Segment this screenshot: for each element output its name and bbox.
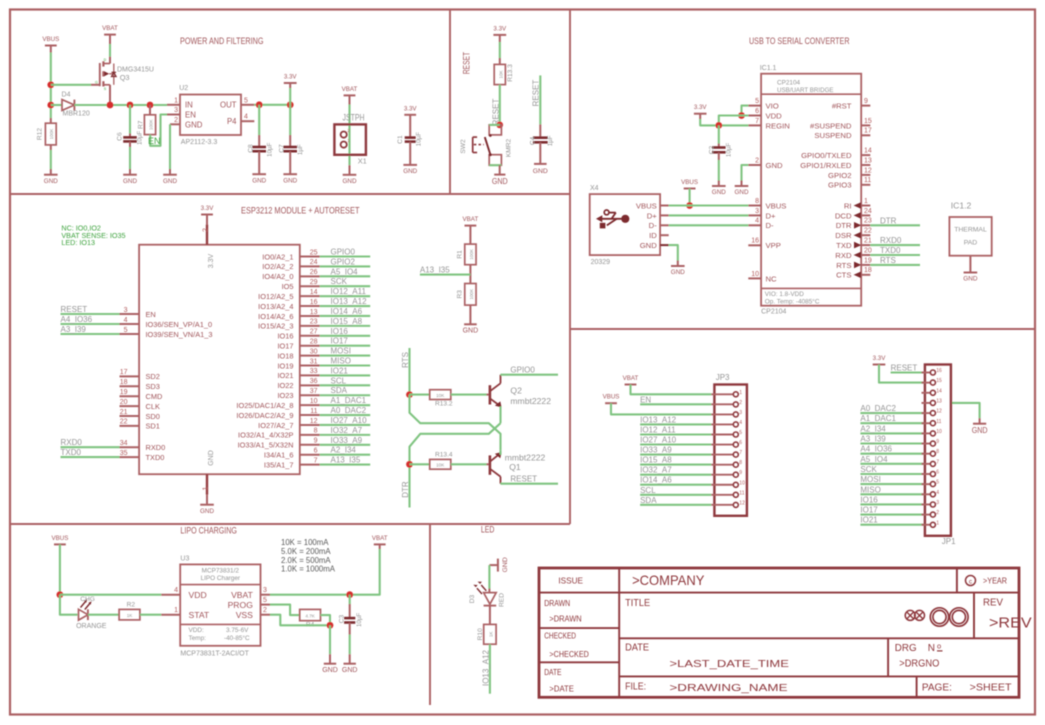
svg-text:RXD0: RXD0 <box>146 443 166 452</box>
svg-text:CMD: CMD <box>146 392 163 401</box>
supply VBAT lipo right <box>374 543 386 545</box>
svg-text:SD1: SD1 <box>146 422 160 431</box>
svg-text:VBUS: VBUS <box>681 179 698 186</box>
svg-text:GND: GND <box>492 176 508 186</box>
LED D3 red <box>484 593 497 605</box>
svg-text:29: 29 <box>310 279 318 286</box>
wire VBAT to Q3 drain <box>109 35 111 44</box>
pin 5 OUT stub <box>241 104 254 106</box>
net stub DTR (vertical) <box>408 464 410 507</box>
ground below C8 <box>252 173 266 175</box>
wire U3 VBAT to VBAT supply <box>270 549 380 595</box>
net stub RESET to C4 <box>539 75 541 124</box>
svg-text:19: 19 <box>120 389 128 396</box>
svg-text:REV: REV <box>983 598 1003 609</box>
svg-text:SCK: SCK <box>331 277 348 286</box>
esp pin 26 IO4/A2_0 / net A5_IO4 <box>300 275 320 277</box>
svg-text:A5_IO4: A5_IO4 <box>331 267 359 276</box>
svg-text:CHG: CHG <box>80 596 95 603</box>
wire R3 to gnd <box>469 305 471 324</box>
svg-text:Op. Temp: -4085°C: Op. Temp: -4085°C <box>765 297 820 305</box>
svg-text:100K: 100K <box>149 119 154 131</box>
svg-text:I34/A1_6: I34/A1_6 <box>264 451 294 460</box>
svg-text:36: 36 <box>310 378 318 385</box>
CP2104 pin 11 GPIO3 <box>861 184 870 186</box>
svg-text:11: 11 <box>936 419 941 425</box>
esp pin 35 TXD0 / net TXD0 <box>61 456 120 458</box>
svg-text:EN: EN <box>148 136 161 146</box>
svg-text:10K: 10K <box>436 393 445 398</box>
esp pin 20 CLK <box>120 405 140 407</box>
svg-text:A13_I35: A13_I35 <box>420 265 450 274</box>
wire VBUS to U3 VDD <box>59 544 61 594</box>
svg-text:25: 25 <box>310 249 318 256</box>
esp pin 5 IO39/SEN_VN/A1_3 / net A3_I39 <box>61 333 120 335</box>
svg-text:23: 23 <box>864 218 872 225</box>
svg-text:>DRAWN: >DRAWN <box>549 614 581 624</box>
svg-text:14: 14 <box>936 388 942 394</box>
wire VBAT to JP3 pin1 <box>631 385 712 395</box>
net IO33_A9 wire to JP3 <box>640 454 711 456</box>
wire X1 pin1 to gnd <box>349 165 351 175</box>
svg-text:6: 6 <box>739 440 742 446</box>
CP2104 pin 20 RXD <box>861 254 870 256</box>
wire R13.3 to switch / net RESET <box>499 85 501 125</box>
svg-text:16: 16 <box>310 299 318 306</box>
svg-text:2: 2 <box>263 607 267 614</box>
svg-text:IO32/A1_4/X32P: IO32/A1_4/X32P <box>238 431 294 440</box>
svg-text:GND: GND <box>200 508 214 515</box>
svg-text:D4: D4 <box>62 92 71 99</box>
svg-text:D+: D+ <box>766 211 777 220</box>
svg-text:IN: IN <box>185 101 193 110</box>
svg-text:R12: R12 <box>37 128 44 140</box>
svg-text:1.0K = 1000mA: 1.0K = 1000mA <box>281 565 336 574</box>
svg-text:>COMPANY: >COMPANY <box>632 572 705 588</box>
resistor R7 100K <box>149 105 151 115</box>
svg-text:RESET: RESET <box>61 305 88 314</box>
capacitor C8 10uF <box>258 105 260 135</box>
esp pin 28 IO17 / net IO17 <box>300 345 320 347</box>
svg-text:>DRGNO: >DRGNO <box>899 657 939 669</box>
svg-text:RTS: RTS <box>836 261 851 270</box>
svg-text:R13.3: R13.3 <box>507 64 514 82</box>
wire C6 to gnd <box>129 147 131 169</box>
svg-text:RESET: RESET <box>510 475 537 484</box>
esp pin 30 IO18 / net MOSI <box>300 355 320 357</box>
wire JP1 pin13 to gnd <box>951 403 980 418</box>
svg-text:11: 11 <box>310 408 317 415</box>
svg-text:DCD: DCD <box>835 211 852 220</box>
svg-text:8: 8 <box>755 198 759 205</box>
esp pin 25 IO0/A2_1 / net GPIO0 <box>300 256 320 258</box>
svg-text:MCP73831/2: MCP73831/2 <box>202 568 240 575</box>
svg-text:7: 7 <box>314 457 318 464</box>
svg-text:ESP3212 MODULE + AUTORESET: ESP3212 MODULE + AUTORESET <box>241 206 360 216</box>
ground below C4 <box>534 163 547 165</box>
svg-text:IO36/SEN_VP/A1_0: IO36/SEN_VP/A1_0 <box>146 320 213 329</box>
svg-text:Q2: Q2 <box>510 385 522 395</box>
svg-text:RXD0: RXD0 <box>880 236 902 245</box>
JP3 pin 6 <box>711 444 733 446</box>
svg-text:1: 1 <box>864 198 868 205</box>
svg-text:3.3V: 3.3V <box>694 104 708 111</box>
svg-text:R1: R1 <box>457 250 464 259</box>
wire C3 to gnd <box>349 635 351 655</box>
svg-text:GND: GND <box>343 178 357 185</box>
svg-text:11: 11 <box>739 490 744 496</box>
svg-text:EN: EN <box>146 310 156 319</box>
transistor Q2 mmbt2222 npn <box>489 385 492 404</box>
svg-text:2: 2 <box>936 510 939 516</box>
svg-text:IC1.1: IC1.1 <box>760 65 777 72</box>
svg-text:THERMAL: THERMAL <box>954 227 987 234</box>
svg-text:IC1.2: IC1.2 <box>951 201 972 211</box>
wire gate of Q3 <box>51 84 91 86</box>
ground jp1 <box>973 423 986 425</box>
svg-text:mmbt2222: mmbt2222 <box>505 452 546 462</box>
junction REGIN / C2 <box>715 122 722 129</box>
svg-text:GND: GND <box>671 269 685 276</box>
svg-text:ID: ID <box>649 231 657 240</box>
svg-text:A2_I34: A2_I34 <box>860 424 886 433</box>
wire VBUS vertical to rail <box>50 46 52 53</box>
svg-text:>DATE: >DATE <box>549 684 574 694</box>
svg-text:VBAT: VBAT <box>372 535 388 542</box>
CP2104 pin 2 GND <box>748 164 761 166</box>
X4 pin D- <box>660 224 669 226</box>
JP3 pin 1 <box>711 393 733 395</box>
svg-text:GND: GND <box>123 178 137 185</box>
esp pin 37 IO23 / net SDA <box>300 394 320 396</box>
net SCL wire to JP3 <box>640 494 711 496</box>
svg-text:35: 35 <box>120 450 128 457</box>
CP2104 pin 18 CTS <box>861 274 870 276</box>
svg-text:IO14_A6: IO14_A6 <box>640 476 672 485</box>
svg-text:GND: GND <box>463 328 479 335</box>
supply 3.3V reset <box>493 34 506 36</box>
svg-text:mmbt2222: mmbt2222 <box>510 396 551 406</box>
section divider vertical power|reset <box>449 10 451 195</box>
svg-text:2: 2 <box>174 117 178 124</box>
svg-text:100K: 100K <box>469 248 474 260</box>
svg-text:GND: GND <box>972 425 988 435</box>
svg-text:VBAT: VBAT <box>623 375 639 382</box>
net SDA wire to JP3 <box>640 504 711 506</box>
svg-text:GND: GND <box>342 667 358 674</box>
wire net A13_I35 <box>469 265 471 284</box>
junction DTR / R13.4 <box>406 461 413 468</box>
svg-text:RTS: RTS <box>401 352 410 368</box>
wire VIO to VDD <box>742 106 749 116</box>
svg-text:3.3V: 3.3V <box>208 253 215 268</box>
svg-text:9: 9 <box>739 470 742 476</box>
pin 1 IN stub <box>167 104 180 106</box>
wire TXD0 net <box>870 254 920 256</box>
JP3 pin 7 <box>711 454 733 456</box>
svg-text:A1_DAC1: A1_DAC1 <box>331 396 367 405</box>
ground below SW2 <box>494 174 505 176</box>
svg-text:14: 14 <box>310 289 318 296</box>
pin 2 GND stub <box>170 123 180 125</box>
svg-text:X4: X4 <box>590 185 599 192</box>
resistor R13.4 10K <box>410 463 430 465</box>
JP1 pin 1 <box>922 524 931 526</box>
svg-text:CP2104: CP2104 <box>761 309 786 316</box>
svg-text:IO19: IO19 <box>277 361 293 370</box>
svg-text:REGIN: REGIN <box>766 121 790 130</box>
svg-text:12: 12 <box>936 409 942 415</box>
supply VBAT jp3 <box>625 384 637 386</box>
svg-text:TXD0: TXD0 <box>61 448 82 457</box>
svg-text:A1_DAC1: A1_DAC1 <box>860 414 896 423</box>
svg-text:IO14/A2_6: IO14/A2_6 <box>258 312 293 321</box>
CP2104 pin 6 VDD <box>748 115 761 117</box>
junction rail C6 <box>127 102 134 109</box>
junction VBUS rail <box>686 202 693 209</box>
svg-text:7: 7 <box>739 450 742 456</box>
svg-text:D+: D+ <box>647 211 658 220</box>
wire switch to gnd <box>499 165 501 174</box>
led D3 emission arrows <box>481 585 486 591</box>
svg-text:3: 3 <box>755 208 759 215</box>
net IO17 wire to JP1 <box>860 514 925 516</box>
junction VBUS/gate <box>47 81 54 88</box>
CP2104 pin 21 TXD <box>861 244 870 246</box>
svg-text:7: 7 <box>755 118 759 125</box>
svg-text:VDD: VDD <box>189 590 207 600</box>
svg-text:>SHEET: >SHEET <box>970 681 1012 693</box>
junction output C8 <box>256 101 263 108</box>
IC U2 AP2112-3.3 regulator <box>180 95 241 136</box>
svg-text:13: 13 <box>310 309 318 316</box>
JP3 pin 2 <box>711 403 733 405</box>
svg-text:4: 4 <box>124 317 128 324</box>
svg-text:MBR120: MBR120 <box>63 111 90 118</box>
wire RTS net <box>870 264 920 266</box>
JP1 pin 7 <box>922 463 931 465</box>
svg-text:IO26/DAC2/A2_9: IO26/DAC2/A2_9 <box>236 411 293 420</box>
svg-text:VBUS: VBUS <box>636 201 657 210</box>
section divider vertical lipo|led <box>429 524 431 705</box>
CP2104 pin 22 DSR <box>861 234 870 236</box>
svg-text:IO33_A9: IO33_A9 <box>640 446 672 455</box>
esp pin 36 IO22 / net SCL <box>300 384 320 386</box>
svg-text:100K: 100K <box>469 288 474 300</box>
svg-text:2.0K = 500mA: 2.0K = 500mA <box>281 556 331 565</box>
svg-text:R7: R7 <box>137 120 144 129</box>
svg-text:CTS: CTS <box>836 271 851 280</box>
svg-text:ORANGE: ORANGE <box>76 623 107 630</box>
ground below U2 pin2 <box>169 169 171 175</box>
svg-text:5: 5 <box>124 327 128 334</box>
wire R7 to EN pin 3 of U2 <box>150 115 167 146</box>
svg-text:OUT: OUT <box>220 101 237 110</box>
title block lines <box>618 568 620 697</box>
wire gnd to led D3 <box>488 565 490 588</box>
svg-text:VBUS: VBUS <box>766 201 787 210</box>
svg-text:RESET: RESET <box>532 80 541 107</box>
svg-text:SD2: SD2 <box>146 372 160 381</box>
svg-text:1: 1 <box>739 390 742 396</box>
svg-text:21: 21 <box>864 238 872 245</box>
svg-text:IO5: IO5 <box>282 282 294 291</box>
svg-text:DTR: DTR <box>836 221 852 230</box>
svg-text:10µF: 10µF <box>416 132 423 146</box>
JP3 pin 10 <box>711 484 733 486</box>
svg-text:IO12/A2_5: IO12/A2_5 <box>258 292 293 301</box>
svg-text:I35/A1_7: I35/A1_7 <box>264 460 294 469</box>
JP1 pin 5 <box>922 483 931 485</box>
svg-text:DTR: DTR <box>880 216 897 225</box>
svg-text:FILE:: FILE: <box>625 682 646 693</box>
svg-text:#RST: #RST <box>832 102 852 111</box>
svg-text:A5_IO4: A5_IO4 <box>860 455 888 464</box>
svg-text:R3: R3 <box>457 290 464 299</box>
svg-text:19: 19 <box>864 257 872 264</box>
svg-text:28: 28 <box>310 338 318 345</box>
section divider vertical mid|usb <box>569 10 571 525</box>
svg-text:4: 4 <box>936 490 939 496</box>
svg-text:33: 33 <box>310 368 318 375</box>
svg-text:1: 1 <box>174 607 178 614</box>
net MOSI wire to JP1 <box>860 483 925 485</box>
svg-text:5: 5 <box>739 430 742 436</box>
net IO32_A7 wire to JP3 <box>640 474 711 476</box>
svg-text:GND: GND <box>766 161 784 170</box>
U3 pin 2 VSS <box>261 614 271 616</box>
svg-text:3: 3 <box>936 500 939 506</box>
svg-text:GND: GND <box>403 168 417 175</box>
net A1_DAC1 wire to JP1 <box>860 422 925 424</box>
svg-text:IO23: IO23 <box>277 391 293 400</box>
wire U3 VSS to gnd node <box>270 615 330 626</box>
svg-text:USB TO SERIAL CONVERTER: USB TO SERIAL CONVERTER <box>749 36 850 46</box>
svg-text:VBAT: VBAT <box>231 590 254 600</box>
module U1 ESP3212 box <box>139 245 300 475</box>
svg-text:C7: C7 <box>279 144 286 153</box>
svg-text:#SUSPEND: #SUSPEND <box>810 121 852 130</box>
wire VDD to C2 node <box>719 116 749 126</box>
svg-text:A2_I34: A2_I34 <box>331 446 357 455</box>
svg-text:12: 12 <box>310 418 318 425</box>
svg-text:IO16: IO16 <box>331 327 349 336</box>
wire VSS node to gnd <box>329 625 331 654</box>
supply VBUS jp3 <box>605 402 617 404</box>
svg-text:C1: C1 <box>397 135 404 144</box>
esp pin 4 IO36/SEN_VP/A1_0 / net A4_IO36 <box>61 323 120 325</box>
wire 3.3V to REGIN <box>699 114 701 119</box>
svg-text:TXD0: TXD0 <box>146 453 165 462</box>
CP2104 pin 1 RI <box>861 205 870 207</box>
svg-text:17: 17 <box>120 369 128 376</box>
svg-text:26: 26 <box>310 269 318 276</box>
CP2104 pin 13 GPIO1/RXLED <box>861 164 870 166</box>
wire RTS crossover to Q1 emitter <box>410 395 501 451</box>
net stub RTS (vertical) <box>408 348 410 395</box>
section divider horizontal under usb <box>570 328 1035 330</box>
CP2104 pin 19 RTS <box>861 264 870 266</box>
wire main 5V rail to U2 <box>74 104 167 106</box>
wire DTR crossover to Q2 emitter <box>410 423 501 464</box>
svg-text:CHECKED: CHECKED <box>544 630 576 640</box>
JP1 pin 16 <box>922 372 931 374</box>
svg-text:G: G <box>95 81 98 85</box>
JP1 pin 4 <box>922 493 931 495</box>
svg-text:STAT: STAT <box>189 610 210 620</box>
svg-text:3: 3 <box>263 587 267 594</box>
esp module gnd pin 1 <box>206 474 208 494</box>
JP3 pin 9 <box>711 474 733 476</box>
X4 pin VBUS <box>660 205 669 207</box>
svg-text:IO18: IO18 <box>277 351 293 360</box>
svg-text:IO27/A2_7: IO27/A2_7 <box>258 421 293 430</box>
svg-text:-40-85°C: -40-85°C <box>224 634 250 642</box>
JP1 pin 6 <box>922 473 931 475</box>
supply VBUS lipo <box>54 543 66 545</box>
svg-text:IO21: IO21 <box>331 366 349 375</box>
net A2_I34 wire to JP1 <box>860 432 925 434</box>
svg-text:IO13/A2_4: IO13/A2_4 <box>258 302 293 311</box>
svg-text:R10: R10 <box>477 628 484 640</box>
net IO12_A11 wire to JP3 <box>640 433 711 435</box>
svg-text:4: 4 <box>174 587 178 594</box>
esp pin 7 I35/A1_7 / net A13_I35 <box>300 464 320 466</box>
wire R2 to U3 STAT <box>140 614 161 616</box>
svg-text:GPIO2: GPIO2 <box>331 257 356 266</box>
pin 4 P4 stub <box>241 120 254 122</box>
svg-text:9: 9 <box>936 439 939 445</box>
supply 3.3V jp1 <box>873 364 886 366</box>
svg-text:IO16: IO16 <box>277 332 293 341</box>
wire RXD0 net <box>870 244 920 246</box>
svg-text:10µF: 10µF <box>267 142 274 156</box>
svg-text:8: 8 <box>314 428 318 435</box>
svg-text:3: 3 <box>174 107 178 114</box>
CP2104 pin 14 GPIO0/TXLED <box>861 154 870 156</box>
svg-text:15: 15 <box>864 118 872 125</box>
svg-text:TXD: TXD <box>836 241 852 250</box>
JP1 pin 9 <box>922 443 931 445</box>
svg-text:R13.4: R13.4 <box>435 452 453 459</box>
svg-text:>CHECKED: >CHECKED <box>549 649 589 659</box>
wire Q2 collector to GPIO0 <box>501 374 559 376</box>
svg-text:5: 5 <box>755 98 759 105</box>
wire X4 VBUS to CP2104 <box>669 204 749 206</box>
net RESET wire to JP1 pin16 <box>891 371 925 373</box>
ground below C6 <box>129 169 131 175</box>
CP2104 pin 3 D+ <box>748 214 761 216</box>
svg-text:GPIO3: GPIO3 <box>828 181 852 190</box>
svg-text:DTR: DTR <box>401 481 410 498</box>
svg-text:JP3: JP3 <box>716 373 730 382</box>
wire VBUS supply to rail <box>689 189 691 206</box>
svg-text:20: 20 <box>864 247 872 254</box>
capacitor C6 10uF <box>129 105 131 134</box>
usb trident symbol <box>599 218 626 220</box>
resistor R10 1K <box>489 606 491 625</box>
svg-text:EN: EN <box>640 395 651 404</box>
svg-text:3: 3 <box>124 307 128 314</box>
svg-text:4: 4 <box>739 420 742 426</box>
svg-text:JSTPH: JSTPH <box>343 113 365 123</box>
svg-text:2: 2 <box>739 400 742 406</box>
JP3 pin 12 <box>711 504 733 506</box>
JP3 pin 8 <box>711 464 733 466</box>
svg-text:C4: C4 <box>529 136 536 145</box>
svg-text:RESET: RESET <box>462 52 472 75</box>
svg-text:VDD:: VDD: <box>189 627 204 634</box>
